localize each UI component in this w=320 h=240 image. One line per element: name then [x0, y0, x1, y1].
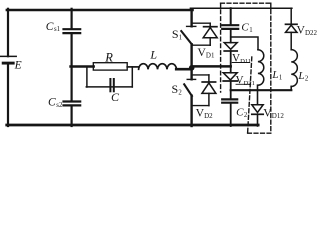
- diode VD1: [203, 23, 217, 45]
- svg-text:D12: D12: [272, 112, 285, 120]
- svg-text:V: V: [236, 74, 244, 86]
- wire: VD2 bottom connector: [192, 105, 209, 107]
- svg-text:D11: D11: [240, 58, 251, 65]
- wire: L to midpoint node (thick): [176, 68, 190, 71]
- battery E plates: [1, 56, 17, 63]
- dashed box bottom edge: [248, 132, 271, 134]
- wire: node N1 to L1 top: [231, 37, 258, 50]
- wire: VD1 bottom connector: [192, 44, 211, 46]
- svg-text:V: V: [232, 53, 240, 65]
- wire: VD11 to VD21: [230, 51, 232, 73]
- inductor L1: [258, 50, 264, 85]
- svg-text:L: L: [149, 48, 157, 62]
- svg-text:1: 1: [179, 34, 182, 41]
- wire: left column lower: [7, 65, 9, 127]
- wire: top rail (left, thick): [7, 9, 193, 11]
- svg-text:2: 2: [178, 90, 182, 97]
- wire: RC parallel left drop: [86, 67, 88, 88]
- capacitor C2: [222, 99, 237, 102]
- svg-text:D22: D22: [305, 29, 317, 37]
- wire: R to L: [127, 66, 139, 68]
- svg-text:E: E: [14, 59, 22, 71]
- wire: clamp branch top (rail to C1): [230, 8, 232, 24]
- wire: junction to R (thick): [71, 65, 94, 68]
- wire: snubber branch lower: [70, 107, 72, 127]
- svg-text:C: C: [111, 90, 120, 104]
- switch S1 blade: [181, 31, 192, 44]
- svg-text:2: 2: [305, 75, 309, 82]
- inductor L: [139, 64, 177, 70]
- switch S1 contact tick: [187, 25, 196, 27]
- capacitor Cs1: [64, 29, 81, 33]
- svg-text:C: C: [48, 97, 56, 109]
- svg-text:2: 2: [244, 112, 248, 119]
- wire: snubber branch upper (to Cs1): [70, 9, 72, 28]
- wire: VD2 top connector: [192, 74, 209, 76]
- inductor L2: [291, 50, 297, 87]
- svg-text:C: C: [236, 107, 244, 119]
- wire: S2 lower stub to bottom rail: [190, 96, 192, 126]
- switch S1 upper stub: [190, 9, 192, 27]
- svg-text:C: C: [46, 21, 54, 33]
- wire: L1 bottom to VD12: [257, 85, 259, 105]
- wire: VD1 top connector: [192, 22, 211, 24]
- label underline VD11: [232, 62, 249, 64]
- svg-text:L: L: [271, 69, 278, 81]
- wire: snubber branch middle: [70, 34, 72, 100]
- label E: [0, 0, 1, 1]
- diode VD12: [252, 105, 263, 126]
- svg-text:s2: s2: [56, 102, 63, 109]
- svg-text:S: S: [172, 82, 179, 96]
- svg-text:D2: D2: [204, 112, 213, 120]
- svg-text:L: L: [297, 70, 304, 82]
- wire: C2 to bottom rail: [230, 104, 232, 126]
- svg-text:1: 1: [249, 27, 252, 34]
- wire: top rail (right, thin) to VD22: [190, 7, 292, 9]
- node: midpoint junction dot: [189, 65, 195, 71]
- wire: C1 to VD11: [230, 30, 232, 43]
- dashed box right edge: [270, 3, 272, 133]
- dashed box middle edge: [248, 57, 252, 133]
- svg-text:s1: s1: [54, 26, 60, 33]
- resistor R: [93, 63, 127, 70]
- svg-text:1: 1: [279, 74, 282, 81]
- switch S2 upper stub: [190, 68, 192, 80]
- wire: node N3 rail (to L1 and L2 bottoms): [231, 89, 292, 91]
- wire: S1 lower stub to node: [190, 44, 192, 66]
- svg-text:D1: D1: [206, 52, 215, 60]
- svg-text:C: C: [241, 21, 249, 33]
- dashed box left edge: [220, 3, 222, 92]
- diode VD11: [224, 43, 237, 51]
- wire: RC parallel bottom: [86, 86, 132, 88]
- svg-text:S: S: [172, 27, 179, 41]
- wire: RC parallel right rise: [131, 67, 133, 87]
- diode VD21: [223, 73, 237, 81]
- wire: bottom rail: [7, 124, 259, 127]
- dashed box top edge: [221, 2, 271, 4]
- diode VD22: [286, 8, 298, 50]
- wire: left column upper: [7, 9, 9, 56]
- switch S2 contact tick: [187, 78, 195, 80]
- wire: VD21 to C2: [230, 81, 232, 98]
- capacitor C: [110, 79, 113, 91]
- svg-text:R: R: [104, 50, 113, 64]
- label underline VD21: [236, 83, 251, 85]
- wire: midpoint node to clamp branch: [192, 65, 231, 68]
- diode VD2: [202, 75, 216, 106]
- capacitor C1: [222, 25, 238, 29]
- wire: L2 bottom drop: [290, 86, 292, 90]
- switch S2 blade: [184, 84, 192, 96]
- capacitor Cs2: [64, 102, 81, 106]
- svg-text:D21: D21: [244, 80, 255, 87]
